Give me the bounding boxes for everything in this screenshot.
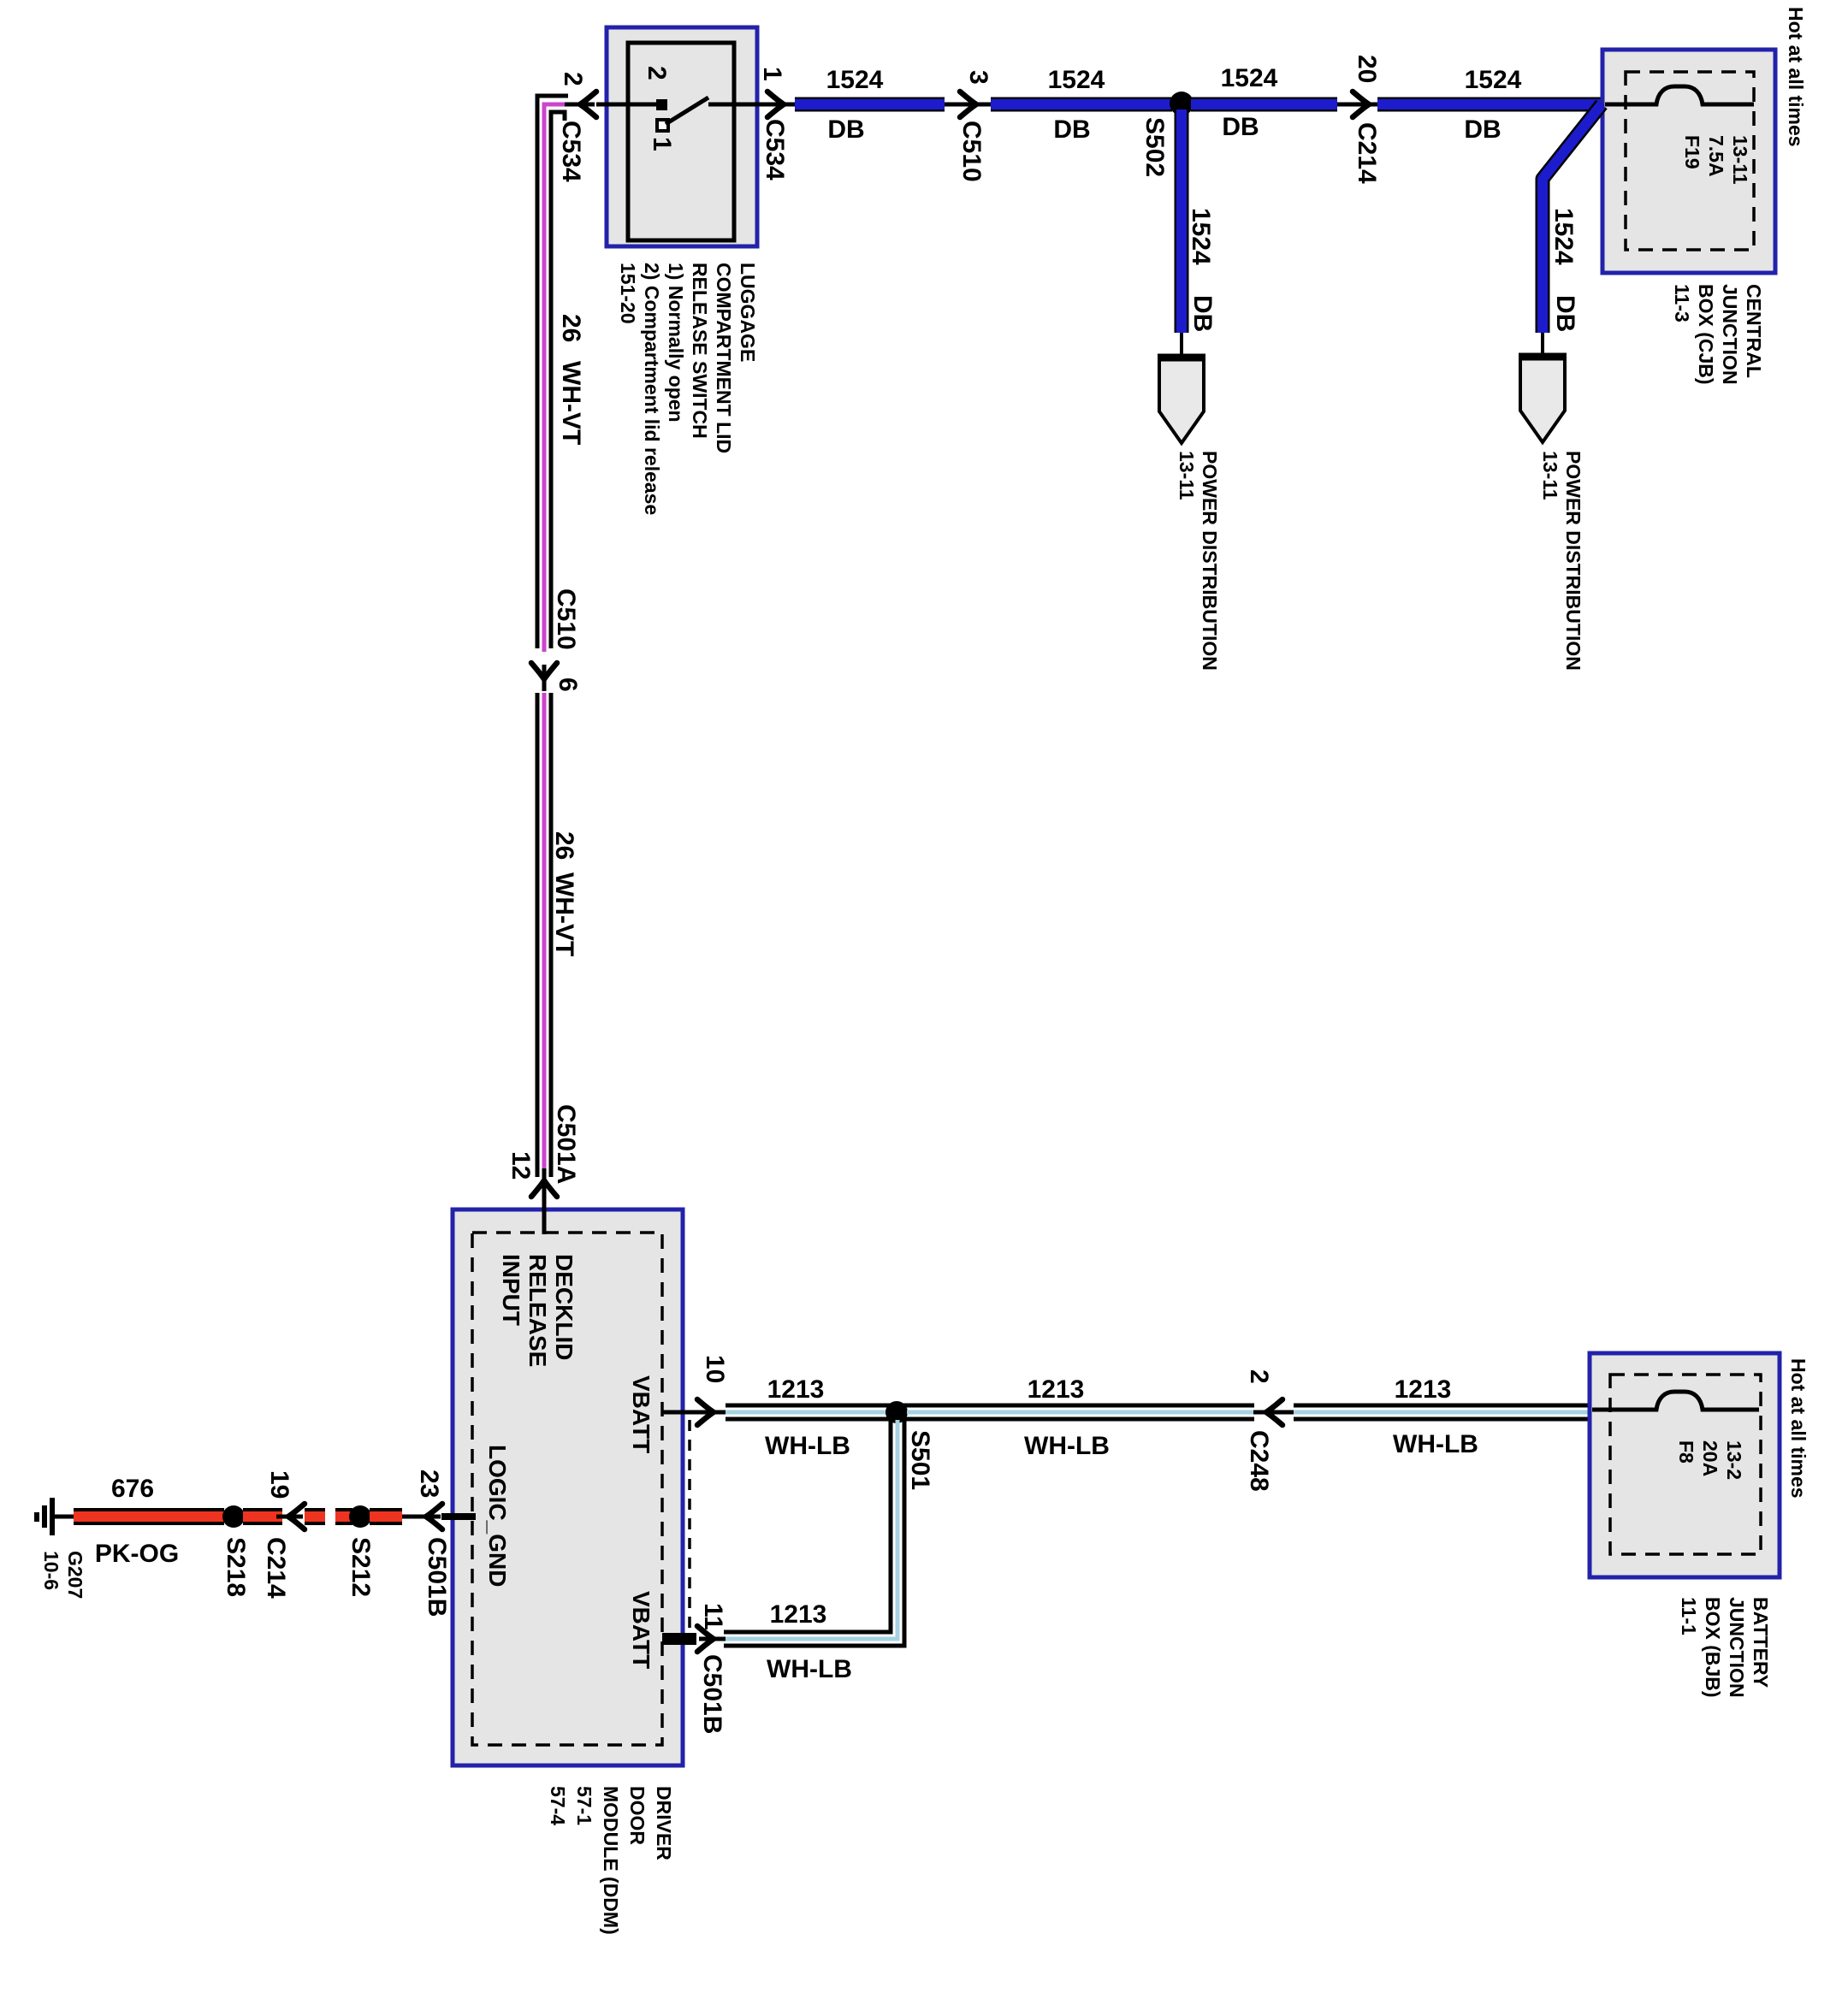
svg-text:F8: F8 [1675, 1440, 1697, 1464]
label 1213 (mid seg) [1028, 1375, 1085, 1404]
svg-text:11: 11 [699, 1603, 727, 1630]
svg-text:WH-LB: WH-LB [765, 1432, 850, 1460]
wire PK-OG (S212 to C501B) [370, 1508, 428, 1525]
svg-text:676: 676 [111, 1475, 154, 1503]
wire from blade to box edge [708, 103, 773, 107]
connector C534 pin 1 arrow [767, 92, 796, 117]
wire stub at C214 [1337, 103, 1379, 107]
svg-text:S212: S212 [346, 1537, 375, 1597]
wire 1213 WH-LB (S501 to C248) [907, 1405, 1254, 1419]
pin label 2 (C248) [1245, 1369, 1273, 1384]
wire 1524 DB segment 3 [1191, 98, 1337, 112]
wire 1213 WH-LB vertical+bottom (S501 to pin 11) [724, 1420, 904, 1646]
connector C510 pin 3 arrow [960, 92, 988, 117]
svg-text:C510: C510 [957, 121, 986, 182]
label WH-LB (pin11 seg) [767, 1655, 852, 1683]
svg-text:WH-LB: WH-LB [767, 1655, 852, 1683]
svg-text:WH-VT: WH-VT [550, 872, 578, 956]
lead to power distribution arrow right [1541, 333, 1544, 355]
svg-text:57-1: 57-1 [573, 1786, 595, 1825]
svg-text:C214: C214 [262, 1537, 290, 1599]
svg-text:1524: 1524 [1549, 208, 1578, 265]
label 1524 (vertical left) [1187, 208, 1215, 265]
svg-text:RELEASE: RELEASE [524, 1254, 551, 1367]
label WH-LB (right seg) [1393, 1430, 1478, 1458]
connector C501B pin 23 arrow [414, 1504, 442, 1529]
svg-text:1: 1 [758, 67, 786, 81]
svg-text:20: 20 [1353, 55, 1381, 83]
pin label 11 [699, 1603, 727, 1630]
svg-text:DB: DB [1188, 295, 1217, 332]
label PK-OG [95, 1540, 179, 1568]
DDM inner dashed box [472, 1233, 662, 1745]
label 26 (upper) [557, 314, 585, 342]
label 1524 seg2 [1048, 66, 1105, 94]
pin label 3 [964, 70, 992, 85]
label WH-VT (lower) [550, 872, 578, 956]
svg-text:POWER DISTRIBUTION: POWER DISTRIBUTION [1562, 451, 1584, 671]
svg-text:DOOR: DOOR [626, 1786, 649, 1845]
svg-text:20A: 20A [1699, 1440, 1721, 1476]
svg-text:DRIVER: DRIVER [653, 1786, 675, 1860]
svg-text:13-11: 13-11 [1539, 451, 1561, 500]
svg-text:1524: 1524 [1048, 66, 1105, 94]
svg-text:1213: 1213 [1028, 1375, 1085, 1404]
pin 23 stub into DDM [441, 1513, 476, 1520]
switch terminal 2 (filled) [656, 99, 667, 110]
svg-text:C534: C534 [761, 119, 789, 180]
wire 1524 DB vertical from S502 [1175, 109, 1189, 333]
connector label C501B (pin 23) [423, 1537, 451, 1617]
wire 1213 WH-LB (pin10 to S501) [726, 1405, 907, 1419]
svg-text:LOGIC_GND: LOGIC_GND [484, 1445, 511, 1587]
label WH-LB (mid seg) [1024, 1432, 1110, 1460]
DDM LOGIC_GND label [484, 1445, 511, 1587]
connector C248 pin 2 arrow [1253, 1399, 1296, 1425]
svg-text:CENTRAL: CENTRAL [1743, 284, 1765, 378]
connector label C501A [552, 1104, 580, 1184]
power distribution symbol (right) [1519, 355, 1567, 442]
pin label 10 [701, 1355, 729, 1383]
svg-text:2: 2 [643, 66, 671, 80]
svg-text:DECKLID: DECKLID [551, 1254, 577, 1360]
svg-text:POWER DISTRIBUTION: POWER DISTRIBUTION [1199, 451, 1221, 671]
BJB inner dashed box [1610, 1375, 1761, 1554]
svg-text:19: 19 [265, 1470, 293, 1499]
power distribution label (left) [1176, 451, 1221, 671]
svg-text:PK-OG: PK-OG [95, 1540, 179, 1568]
splice label S502 [1140, 117, 1169, 177]
wire PK-OG (S218 to C214) [243, 1508, 291, 1525]
label 1213 (pin10 seg) [767, 1375, 825, 1404]
switch pin label 2 [643, 66, 671, 80]
svg-text:BOX (BJB): BOX (BJB) [1702, 1597, 1724, 1698]
connector C214 pin 19 arrow [276, 1504, 305, 1529]
connector label C214 (ground) [262, 1537, 290, 1599]
svg-text:DB: DB [1222, 113, 1259, 141]
pin label 20 [1353, 55, 1381, 83]
label 1524 seg1 [826, 66, 884, 94]
CJB box [1602, 50, 1775, 273]
svg-text:JUNCTION: JUNCTION [1719, 284, 1741, 385]
svg-text:DB: DB [1053, 115, 1090, 144]
splice label S212 [346, 1537, 375, 1597]
pin 10 stub [662, 1410, 700, 1415]
switch inner contact box [628, 43, 734, 240]
connector label C510 (mid) [552, 588, 580, 650]
label 26 (lower) [550, 831, 578, 860]
wire 26 WH-VT lower segment [537, 693, 551, 1177]
svg-text:13-2: 13-2 [1723, 1440, 1745, 1480]
DDM decklid release input labels [498, 1254, 577, 1367]
svg-text:C214: C214 [1353, 122, 1381, 184]
svg-text:F19: F19 [1681, 135, 1703, 169]
wire PK-OG dashed (C214 to S212) [305, 1508, 352, 1525]
lead to power distribution arrow left [1180, 333, 1183, 356]
pin label 1 (C534 right) [758, 67, 786, 81]
svg-text:LUGGAGE: LUGGAGE [737, 263, 759, 362]
external dashed link pin10-pin11 [688, 1420, 691, 1631]
svg-text:Hot at all times: Hot at all times [1787, 1358, 1809, 1499]
CJB name block [1671, 284, 1765, 385]
fuse F8 labels [1675, 1440, 1745, 1480]
svg-text:1524: 1524 [1465, 66, 1522, 94]
connector label C534 (right) [761, 119, 789, 180]
switch pin label 1 [648, 137, 676, 151]
svg-text:3: 3 [964, 70, 992, 85]
svg-text:COMPARTMENT LID: COMPARTMENT LID [713, 263, 735, 453]
label DB seg1 [827, 115, 864, 144]
svg-text:26: 26 [550, 831, 578, 860]
connector label C248 [1245, 1430, 1273, 1492]
svg-text:10: 10 [701, 1355, 729, 1383]
svg-text:10-6: 10-6 [40, 1551, 62, 1590]
svg-text:11-1: 11-1 [1678, 1597, 1700, 1635]
svg-text:2) Compartment lid release: 2) Compartment lid release [641, 263, 663, 515]
svg-text:VBATT: VBATT [628, 1375, 654, 1453]
pin label 23 [415, 1470, 443, 1498]
label DB seg2 [1053, 115, 1090, 144]
pin label 2 (C534 left) [559, 72, 587, 86]
svg-text:C248: C248 [1245, 1430, 1273, 1492]
label WH-VT (upper) [557, 361, 585, 445]
DDM box [453, 1209, 683, 1765]
splice label S218 [222, 1537, 250, 1597]
wire 1524 DB segment 2 [991, 98, 1172, 112]
svg-text:RELEASE SWITCH: RELEASE SWITCH [689, 263, 711, 439]
pin label 6 [554, 677, 582, 692]
label DB seg3 [1222, 113, 1259, 141]
svg-text:WH-VT: WH-VT [557, 361, 585, 445]
wire from arrow into switch box [596, 103, 656, 107]
fuse F8 element [1592, 1392, 1759, 1410]
svg-text:MODULE (DDM): MODULE (DDM) [600, 1786, 622, 1935]
label DB seg4 [1464, 115, 1501, 144]
splice S501 dot [885, 1401, 908, 1423]
label WH-LB (pin10 seg) [765, 1432, 850, 1460]
connector pin 11 arrow [697, 1626, 726, 1652]
switch outer box [607, 27, 757, 246]
label 676 [111, 1475, 154, 1503]
svg-text:26: 26 [557, 314, 585, 342]
svg-text:2: 2 [559, 72, 587, 86]
connector C534 pin 2 arrow [568, 92, 596, 117]
ground label G207 10-6 [40, 1551, 86, 1599]
svg-text:DB: DB [1464, 115, 1501, 144]
fuse F19 labels [1681, 135, 1751, 185]
switch terminal 1 (open) [657, 120, 668, 131]
connector C501A pin 12 arrow (up) [531, 1168, 557, 1197]
svg-text:1: 1 [648, 137, 676, 151]
svg-text:13-11: 13-11 [1729, 135, 1751, 185]
svg-text:C501B: C501B [698, 1654, 726, 1734]
switch description block [617, 263, 759, 515]
svg-text:WH-LB: WH-LB [1393, 1430, 1478, 1458]
svg-text:C510: C510 [552, 588, 580, 650]
pin label 19 [265, 1470, 293, 1499]
wire stub to C534 pin 2 [565, 103, 583, 107]
svg-text:BOX (CJB): BOX (CJB) [1695, 284, 1717, 385]
label 1524 seg4 [1465, 66, 1522, 94]
svg-text:DB: DB [827, 115, 864, 144]
switch blade [666, 98, 708, 124]
svg-text:DB: DB [1551, 295, 1579, 332]
label DB (vertical left) [1188, 295, 1217, 332]
Hot at all times (BJB) [1787, 1358, 1809, 1499]
svg-text:1524: 1524 [1221, 64, 1278, 92]
svg-text:1524: 1524 [1187, 208, 1215, 265]
connector label C214 (top) [1353, 122, 1381, 184]
Hot at all times (CJB) [1785, 7, 1807, 147]
wire 1524 DB segment 4 [1377, 98, 1602, 112]
connector label C534 (left) [557, 121, 585, 182]
svg-text:1524: 1524 [826, 66, 884, 94]
label 1524 seg3 [1221, 64, 1278, 92]
wire 26 WH-VT violet stripe upper [544, 104, 566, 652]
power distribution label (right) [1539, 451, 1584, 671]
DDM VBATT label (pin 10) [628, 1375, 654, 1453]
svg-text:C534: C534 [557, 121, 585, 182]
wire 1524 DB diagonal branch at CJB [1543, 104, 1602, 333]
svg-text:7.5A: 7.5A [1705, 135, 1727, 177]
svg-text:6: 6 [554, 677, 582, 692]
connector label C510 (top) [957, 121, 986, 182]
wire 1524 DB segment 1 [795, 98, 945, 112]
wire stub at C510 [945, 103, 992, 107]
label DB (vertical right) [1551, 295, 1579, 332]
power distribution symbol (left) [1158, 356, 1205, 443]
svg-text:G207: G207 [64, 1551, 86, 1599]
svg-text:BATTERY: BATTERY [1750, 1597, 1772, 1688]
label 1213 (right seg) [1395, 1375, 1452, 1404]
ground G207 symbol [37, 1498, 75, 1535]
svg-text:VBATT: VBATT [628, 1591, 654, 1669]
splice label S501 [906, 1430, 934, 1490]
wire 676 PK-OG (ground to S218) [74, 1508, 224, 1525]
svg-text:WH-LB: WH-LB [1024, 1432, 1110, 1460]
svg-text:1213: 1213 [770, 1600, 827, 1629]
pin label 12 [506, 1151, 535, 1180]
svg-text:1213: 1213 [1395, 1375, 1452, 1404]
svg-text:C501B: C501B [423, 1537, 451, 1617]
connector C510 pin 6 arrow (down) [531, 663, 557, 691]
DDM VBATT label (pin 11) [628, 1591, 654, 1669]
BJB box [1590, 1353, 1780, 1577]
label 1213 (pin11 seg) [770, 1600, 827, 1629]
svg-text:13-11: 13-11 [1176, 451, 1198, 500]
wire 26 WH-VT black outline right upper [551, 112, 565, 648]
connector C214 pin 20 arrow [1353, 92, 1381, 117]
svg-text:2: 2 [1245, 1369, 1273, 1384]
svg-text:C501A: C501A [552, 1104, 580, 1184]
CJB inner dashed box [1626, 72, 1754, 250]
BJB name block [1678, 1597, 1772, 1698]
fuse F19 element [1605, 86, 1754, 104]
splice S502 dot [1170, 92, 1193, 115]
svg-text:23: 23 [415, 1470, 443, 1498]
svg-text:Hot at all times: Hot at all times [1785, 7, 1807, 147]
svg-text:151-20: 151-20 [617, 263, 639, 324]
splice S218 dot [222, 1505, 245, 1528]
svg-text:S501: S501 [906, 1430, 934, 1490]
wire 1213 WH-LB (C248 to BJB) [1294, 1405, 1591, 1419]
wire 26 WH-VT vertical upper segment (black outline left) [537, 96, 568, 648]
svg-text:S218: S218 [222, 1537, 250, 1597]
svg-text:57-4: 57-4 [547, 1786, 569, 1825]
svg-text:JUNCTION: JUNCTION [1726, 1597, 1748, 1698]
connector pin 10 arrow [697, 1399, 726, 1425]
pin 11 stub (thick) [662, 1633, 696, 1645]
svg-text:1) Normally open: 1) Normally open [665, 263, 687, 423]
svg-text:12: 12 [506, 1151, 535, 1180]
svg-text:S502: S502 [1140, 117, 1169, 177]
splice S212 dot [349, 1505, 371, 1528]
svg-text:1213: 1213 [767, 1375, 825, 1404]
wire into DDM decklid input [542, 1189, 547, 1234]
svg-text:INPUT: INPUT [498, 1254, 524, 1326]
svg-text:11-3: 11-3 [1671, 284, 1693, 322]
connector label C501B (pin 11) [698, 1654, 726, 1734]
label 1524 (vertical right) [1549, 208, 1578, 265]
DDM name block [547, 1786, 675, 1935]
